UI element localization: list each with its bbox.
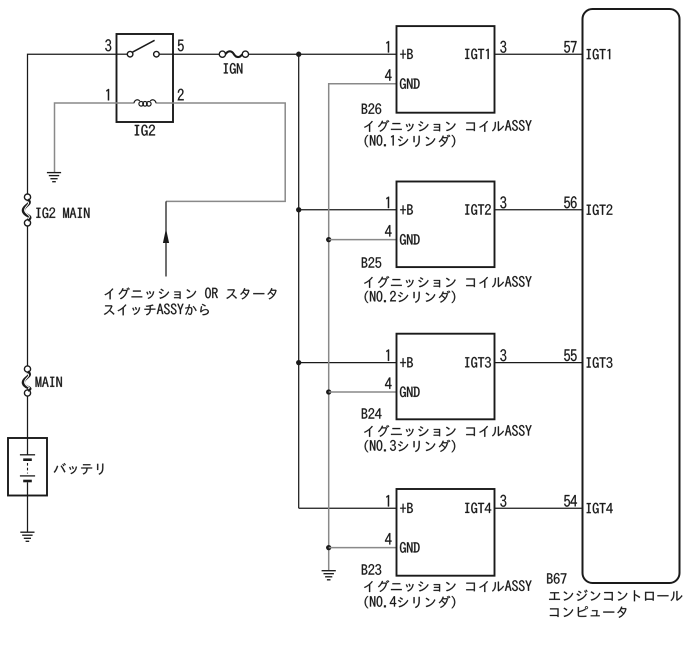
- coil U3 pin 1 label: [386, 350, 389, 361]
- arrow from ignition OR starter switch: [165, 201, 167, 276]
- wire: +B branch to coil 4: [299, 507, 397, 509]
- coil U3 +B label: [400, 357, 413, 367]
- coil U4 designator B23: [362, 564, 381, 575]
- wire: coil U1 IGT1 to ECU: [495, 53, 583, 55]
- relay switch contacts: [117, 53, 128, 55]
- fuse MAIN: [24, 366, 30, 372]
- ECU IGT4 net label: [587, 503, 613, 514]
- fuse IGN: [219, 51, 225, 57]
- coil U2 pin 3 label: [500, 196, 506, 208]
- wire: relay pin2 to ignition-switch feed (gray): [166, 103, 285, 201]
- wire: GND bus vertical (gray): [329, 84, 397, 570]
- wire: +B branch to coil 3: [299, 362, 397, 364]
- coil U2 name text: [364, 276, 532, 288]
- coil U1 IGT1 label: [465, 49, 489, 60]
- ground (coil GND bus): [322, 570, 336, 572]
- wire: +B branch to coil 2: [299, 209, 397, 211]
- ECU designator B67: [547, 573, 566, 584]
- coil U2 pin 4 label: [385, 225, 392, 236]
- wire: GND branch coil 4: [329, 547, 397, 549]
- ECU pin 55 label: [564, 349, 576, 361]
- coil U4 pin 1 label: [386, 495, 389, 506]
- wire: relay pin5 through fuse IGN to +B bus: [173, 53, 220, 55]
- coil U1 pin 1 label: [386, 41, 389, 52]
- coil U2 +B label: [400, 204, 413, 214]
- wire: GND branch coil 2: [329, 239, 397, 241]
- coil U4 IGT4 label: [465, 503, 491, 514]
- ignition coil U1 (B26) box: [397, 26, 495, 113]
- coil U1 GND label: [400, 78, 420, 89]
- wire: GND branch coil 3: [329, 391, 397, 393]
- fuse IG2 MAIN: [24, 194, 30, 200]
- wire: +B bus vertical: [298, 54, 300, 508]
- wire: coil U3 IGT3 to ECU: [495, 362, 583, 364]
- wire: coil U4 IGT4 to ECU: [495, 507, 583, 509]
- coil U2 GND label: [400, 234, 420, 245]
- ground (battery): [20, 531, 34, 533]
- relay coil winding: [117, 102, 135, 104]
- coil U3 pin 3 label: [500, 349, 506, 361]
- ground (relay coil): [47, 172, 61, 174]
- coil U2 designator B25: [362, 257, 381, 268]
- coil U3 pin 4 label: [385, 378, 392, 389]
- node: bus junction dots: [296, 52, 301, 57]
- battery cell plates: [20, 454, 35, 456]
- relay IG2: [117, 34, 174, 122]
- coil U4 GND label: [400, 542, 420, 553]
- coil U1 pin 3 label: [500, 41, 506, 53]
- ignition coil U3 (B24) box: [397, 334, 495, 420]
- coil U3 name text: [364, 425, 532, 437]
- wire: battery positive feed, left vertical main: [28, 54, 117, 194]
- coil U4 pin 4 label: [385, 533, 392, 544]
- coil U1 +B label: [400, 49, 413, 59]
- ECU pin 57 label: [564, 41, 576, 53]
- ECU IGT2 net label: [587, 204, 613, 215]
- coil U4 pin 3 label: [500, 495, 506, 507]
- ECU pin 56 label: [564, 196, 576, 208]
- ECU IGT1 net label: [587, 49, 611, 60]
- coil U1 pin 4 label: [385, 69, 392, 80]
- relay switch blade: [132, 40, 154, 52]
- wire: battery to ground: [27, 482, 29, 532]
- ECU pin 54 label: [564, 495, 577, 507]
- relay pin labels 3 5 1 2: [105, 39, 111, 51]
- ignition coil U2 (B25) box: [397, 182, 495, 268]
- coil U2 IGT2 label: [465, 204, 491, 215]
- coil U1 designator B26: [362, 103, 381, 114]
- battery B1: [8, 438, 47, 496]
- wire: relay pin1 to ground (gray): [55, 103, 117, 172]
- coil U2 pin 1 label: [386, 197, 389, 208]
- ignition coil U4 (B23) box: [397, 489, 495, 576]
- coil U3 designator B24: [362, 408, 382, 418]
- wire: coil U2 IGT2 to ECU: [495, 209, 583, 211]
- node: GND bus junction dots: [326, 237, 331, 242]
- coil U3 GND label: [400, 386, 420, 397]
- coil U4 +B label: [400, 503, 413, 513]
- coil U4 name text: [364, 580, 532, 592]
- ECU U5 (B67 engine control computer): [583, 9, 680, 583]
- coil U1 name text: [364, 120, 532, 132]
- ECU IGT3 net label: [587, 357, 613, 368]
- coil U3 IGT3 label: [465, 357, 491, 368]
